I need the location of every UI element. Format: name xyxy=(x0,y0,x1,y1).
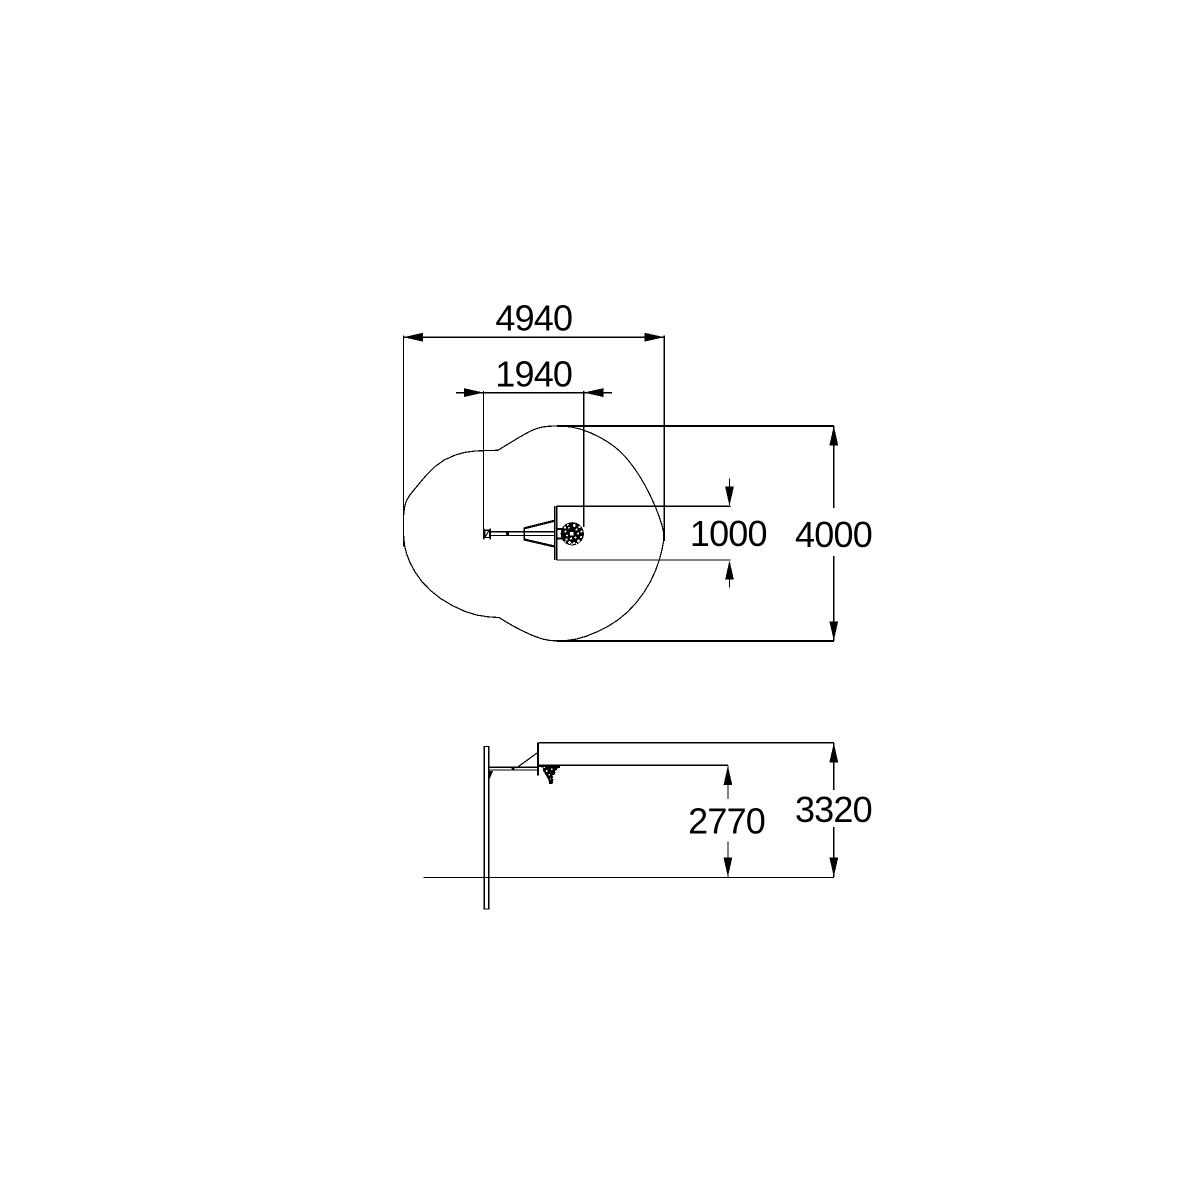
svg-text:1940: 1940 xyxy=(495,353,572,394)
svg-text:1000: 1000 xyxy=(690,513,767,554)
svg-text:3320: 3320 xyxy=(795,789,872,830)
svg-text:4940: 4940 xyxy=(495,298,572,339)
svg-text:2770: 2770 xyxy=(688,801,765,842)
svg-text:4000: 4000 xyxy=(795,514,872,555)
